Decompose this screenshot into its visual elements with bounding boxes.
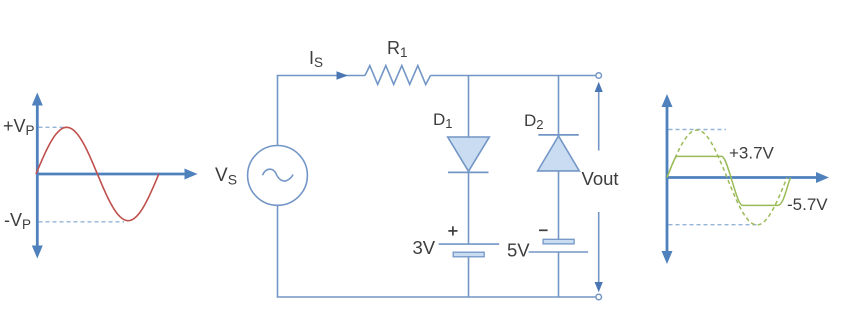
wire D1 branch top	[468, 76, 470, 138]
svg-text:3V: 3V	[413, 237, 436, 258]
original sine (green dashed)	[667, 130, 787, 225]
Vout dimension arrow lower	[595, 212, 603, 292]
terminal bottom right	[596, 294, 602, 300]
plus sign of 3V battery	[448, 226, 457, 235]
svg-text:D1: D1	[433, 110, 453, 131]
wire 3V battery to bottom rail	[468, 257, 470, 297]
wire top rail left segment	[277, 75, 365, 77]
resistor R1	[365, 66, 431, 85]
Vout dimension arrow upper	[595, 82, 603, 151]
clipped output wave (green solid)	[667, 156, 791, 205]
dashed level line bottom (-Vp ref)	[669, 224, 758, 226]
wire left rail bottom (source to bottom rail)	[277, 205, 279, 297]
right graph horizontal axis	[666, 172, 829, 183]
wire D2 branch top	[558, 76, 560, 137]
diode D2	[538, 135, 580, 171]
svg-text:+3.7V: +3.7V	[729, 144, 775, 163]
battery 5V	[529, 239, 589, 252]
svg-text:-VP: -VP	[4, 210, 31, 232]
wire left rail top (source to top rail)	[277, 76, 279, 146]
diode D1	[448, 137, 490, 172]
svg-text:Vout: Vout	[582, 168, 619, 189]
voltage source U VS circle	[248, 146, 308, 206]
svg-text:+VP: +VP	[3, 116, 35, 138]
bottom rail wire	[277, 296, 596, 298]
wire top rail right segment	[431, 75, 596, 77]
current arrow IS	[337, 71, 349, 79]
wire D2 to 5V battery	[558, 171, 560, 239]
terminal top right	[596, 73, 602, 79]
battery 3V	[439, 244, 500, 257]
input sine wave (red)	[36, 127, 159, 220]
wire 5V battery to bottom rail	[558, 252, 560, 297]
right graph vertical axis	[662, 94, 673, 264]
svg-text:VS: VS	[215, 165, 237, 188]
minus sign of 5V battery	[539, 229, 548, 231]
dashed level line top (+Vp ref)	[669, 129, 727, 131]
wire D1 to 3V battery	[468, 172, 470, 244]
left graph vertical axis	[32, 93, 43, 259]
svg-text:D2: D2	[524, 111, 544, 132]
dashed level line +Vp	[39, 126, 65, 128]
left graph horizontal axis	[36, 169, 198, 180]
svg-text:5V: 5V	[507, 240, 530, 261]
svg-text:-5.7V: -5.7V	[787, 195, 828, 214]
voltage source sine symbol	[263, 169, 294, 181]
dashed level line -Vp	[39, 221, 125, 223]
svg-text:IS: IS	[309, 48, 323, 70]
svg-text:R1: R1	[387, 38, 408, 60]
